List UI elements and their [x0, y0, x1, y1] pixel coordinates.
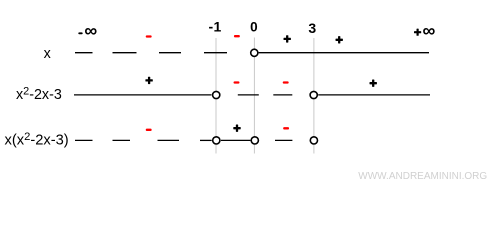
row1 dashed line part: [75, 52, 227, 54]
row3 dashed line part: [75, 139, 212, 141]
row2 solid line left: [74, 94, 212, 96]
row3 sign - (red) seg3: [283, 127, 289, 129]
row2 dashed line part: [238, 94, 292, 96]
row3 dash between 0 and 3: [275, 139, 292, 141]
row3 open circle at 3: [310, 137, 317, 144]
row1 sign - (red) seg2: [234, 35, 240, 37]
row2 sign + seg4: [370, 80, 377, 87]
svg-text:-1: -1: [209, 19, 222, 35]
svg-text:x(x2-2x-3): x(x2-2x-3): [5, 131, 69, 149]
row2 solid line right: [318, 94, 430, 96]
node -1 gridline: [215, 38, 217, 154]
row1 sign + seg3: [284, 35, 291, 42]
svg-text:3: 3: [308, 20, 316, 36]
svg-text:x2-2x-3: x2-2x-3: [16, 85, 62, 103]
row2 sign - (red) seg2: [234, 81, 240, 83]
row3 open circle at -1: [213, 137, 220, 144]
row1 open circle at 0: [251, 49, 258, 56]
node 3 gridline: [313, 38, 315, 154]
row3 solid line between -1 and 0: [221, 139, 251, 141]
row2 sign - (red) seg3: [283, 81, 289, 83]
node 0 gridline: [253, 38, 255, 154]
label -inf: [78, 21, 97, 41]
row3 sign + seg2: [233, 125, 240, 132]
svg-text:WWW.ANDREAMININI.ORG: WWW.ANDREAMININI.ORG: [358, 171, 487, 182]
row3 open circle at 0: [251, 137, 258, 144]
row2 sign + seg1: [145, 77, 152, 84]
svg-text:∞: ∞: [423, 21, 436, 41]
svg-text:x: x: [44, 46, 51, 62]
label +inf: [414, 21, 436, 41]
row2 open circle at -1: [213, 91, 220, 98]
row1 sign + seg4: [336, 36, 343, 43]
svg-text:∞: ∞: [84, 21, 97, 41]
row2 open circle at 3: [310, 91, 317, 98]
row1 solid line part: [259, 52, 429, 54]
row3 sign - (red) seg1: [146, 129, 152, 131]
row1 sign - (red) seg1: [146, 35, 152, 37]
svg-text:0: 0: [250, 20, 258, 35]
